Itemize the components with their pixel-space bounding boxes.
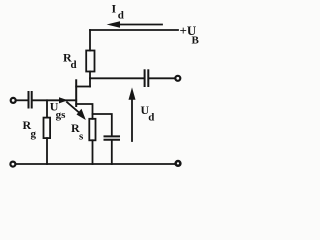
- label Ugs: [50, 100, 66, 121]
- capacitor Cs bypass: [105, 136, 120, 139]
- svg-text:d: d: [118, 9, 124, 21]
- svg-text:s: s: [79, 131, 84, 143]
- label +UB: [180, 23, 200, 46]
- terminal bottom right: [176, 161, 181, 166]
- wire bottom rail: [16, 163, 175, 165]
- terminal output: [175, 76, 180, 81]
- current arrow Id: [107, 21, 162, 27]
- transistor T1 gate arrowhead: [59, 97, 68, 103]
- resistor Rg: [44, 118, 51, 139]
- wire drain lead: [76, 86, 90, 88]
- transistor T1 channel bar: [75, 80, 77, 106]
- svg-text:B: B: [192, 35, 200, 47]
- wire Rg bottom lead: [46, 138, 48, 164]
- svg-text:I: I: [112, 1, 117, 15]
- wire to output terminal: [149, 77, 175, 79]
- wire Rg drop: [46, 100, 48, 117]
- wire Rs bottom lead: [92, 140, 94, 164]
- wire Cs bottom lead: [111, 141, 113, 164]
- svg-text:gs: gs: [56, 109, 67, 121]
- terminal bottom left: [10, 162, 15, 167]
- wire drain column top: [89, 30, 91, 51]
- capacitor C1 input coupling: [29, 92, 32, 108]
- resistor Rs: [89, 119, 95, 141]
- label Id: [112, 1, 124, 21]
- wire output: [90, 77, 144, 79]
- label Rd: [63, 51, 77, 71]
- resistor Rd: [86, 51, 94, 72]
- wire Cs branch: [93, 114, 112, 136]
- wire gate line: [33, 99, 77, 101]
- capacitor C2 output coupling: [145, 70, 149, 86]
- svg-text:g: g: [31, 128, 37, 140]
- wire input: [16, 99, 28, 101]
- label Rs: [71, 121, 84, 142]
- label Ud: [141, 103, 155, 123]
- voltage arrow Ugs diagonal: [67, 102, 86, 120]
- node drain junction: [89, 77, 91, 79]
- svg-text:d: d: [71, 59, 77, 71]
- svg-text:d: d: [148, 111, 154, 123]
- wire top rail to +UB: [90, 29, 178, 31]
- voltage arrow Ud: [129, 87, 136, 141]
- label Rg: [23, 118, 37, 140]
- wire source lead: [76, 104, 92, 119]
- terminal input: [11, 98, 16, 103]
- wire Rd bottom lead: [89, 72, 91, 87]
